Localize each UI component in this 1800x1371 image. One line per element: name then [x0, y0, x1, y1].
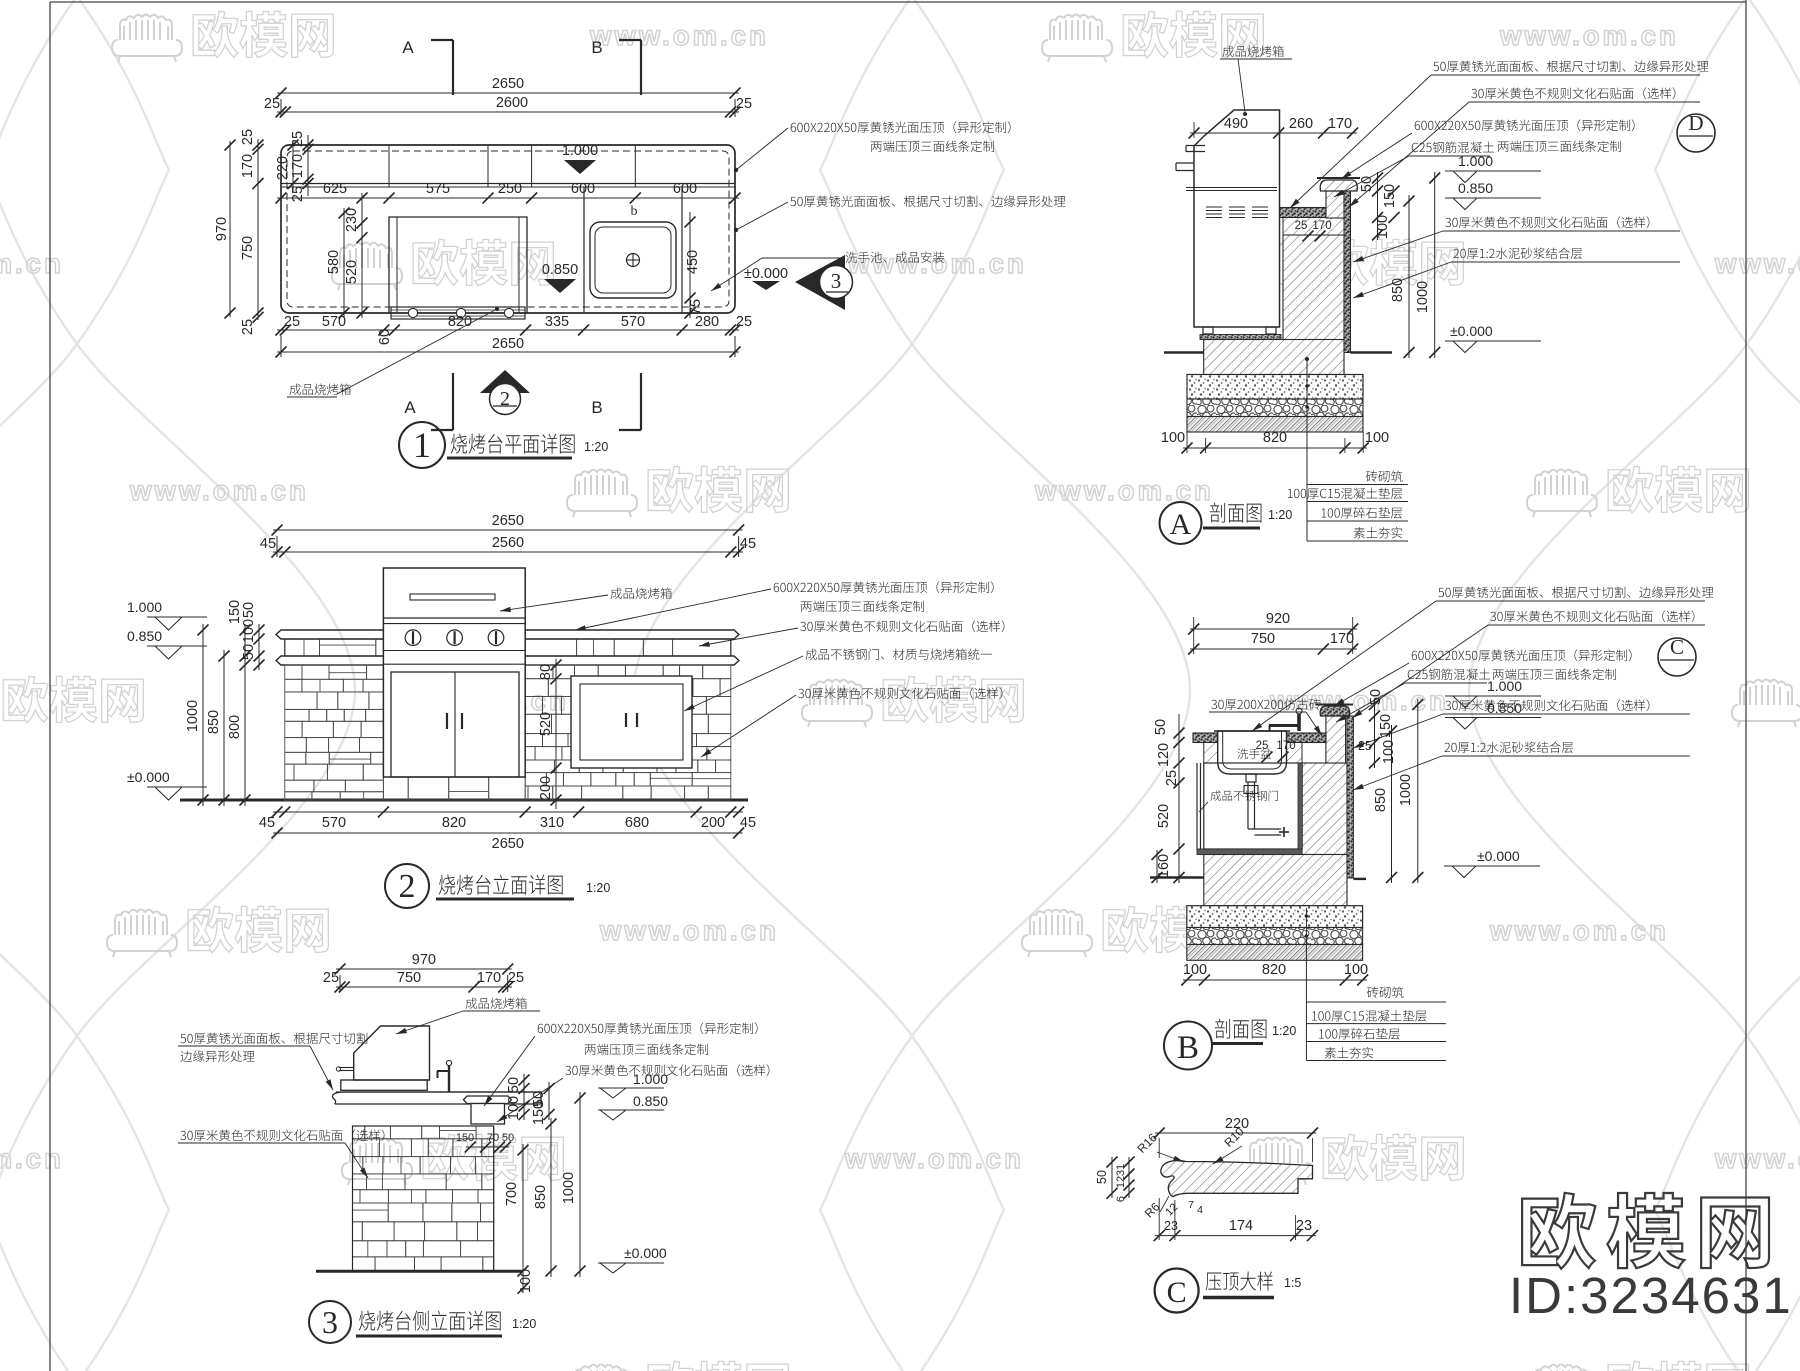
svg-text:25: 25: [1256, 740, 1269, 752]
svg-text:2650: 2650: [492, 513, 524, 529]
svg-text:850: 850: [206, 710, 222, 734]
svg-text:B: B: [1177, 1030, 1199, 1066]
svg-text:850: 850: [1373, 788, 1389, 812]
svg-text:www.om.cn: www.om.cn: [129, 475, 309, 506]
svg-text:490: 490: [1224, 116, 1248, 132]
svg-text:23: 23: [1164, 1219, 1178, 1233]
svg-text:170: 170: [1328, 116, 1352, 132]
svg-text:www.om.cn: www.om.cn: [0, 248, 64, 279]
elevation 烧烤台立面详图: [180, 799, 748, 802]
svg-text:2560: 2560: [492, 535, 524, 551]
svg-text:580: 580: [326, 250, 342, 274]
svg-text:570: 570: [322, 815, 346, 831]
svg-text:1.000: 1.000: [127, 599, 162, 615]
svg-text:800: 800: [227, 715, 243, 739]
svg-text:335: 335: [545, 314, 569, 330]
svg-text:0.850: 0.850: [1487, 700, 1522, 716]
svg-text:25: 25: [323, 970, 339, 986]
svg-text:260: 260: [1289, 116, 1313, 132]
svg-text:50: 50: [502, 1132, 514, 1144]
svg-text:2: 2: [399, 868, 416, 905]
svg-text:80: 80: [538, 664, 554, 680]
svg-text:50: 50: [241, 602, 257, 618]
svg-text:1:20: 1:20: [584, 440, 608, 454]
svg-text:ID:3234631: ID:3234631: [1509, 1267, 1793, 1324]
svg-text:±0.000: ±0.000: [624, 1245, 667, 1261]
svg-text:150: 150: [456, 1132, 474, 1144]
svg-text:680: 680: [625, 815, 649, 831]
svg-text:100: 100: [506, 1096, 522, 1120]
svg-text:www.om.cn: www.om.cn: [1714, 1143, 1800, 1174]
svg-text:820: 820: [1262, 962, 1286, 978]
svg-text:70: 70: [487, 1132, 499, 1144]
svg-text:50: 50: [1153, 719, 1169, 735]
svg-text:45: 45: [260, 536, 276, 552]
svg-text:0.850: 0.850: [1458, 180, 1493, 196]
svg-text:170: 170: [477, 970, 501, 986]
svg-text:230: 230: [344, 208, 360, 232]
svg-text:625: 625: [323, 181, 347, 197]
svg-text:575: 575: [426, 181, 450, 197]
svg-text:25: 25: [1358, 739, 1372, 753]
svg-text:50: 50: [241, 644, 257, 660]
svg-text:100: 100: [1183, 962, 1207, 978]
svg-text:970: 970: [214, 217, 230, 241]
svg-text:A: A: [1170, 508, 1192, 541]
svg-text:200: 200: [538, 776, 554, 800]
svg-text:B: B: [591, 38, 602, 57]
svg-text:174: 174: [1229, 1218, 1253, 1234]
svg-text:850: 850: [1390, 278, 1406, 302]
svg-text:1.000: 1.000: [562, 143, 598, 159]
svg-text:1: 1: [413, 425, 431, 465]
svg-text:160: 160: [1156, 854, 1172, 878]
svg-text:www.om.cn: www.om.cn: [844, 1143, 1024, 1174]
svg-text:750: 750: [240, 236, 256, 260]
svg-text:25: 25: [508, 970, 524, 986]
side elevation 烧烤台侧立面详图: [354, 1026, 430, 1080]
svg-text:700: 700: [504, 1182, 520, 1206]
svg-text:250: 250: [498, 181, 522, 197]
svg-text:50: 50: [1368, 689, 1384, 705]
svg-text:3: 3: [831, 269, 842, 293]
svg-text:820: 820: [1263, 430, 1287, 446]
svg-text:www.om.cn: www.om.cn: [1489, 915, 1669, 946]
svg-text:100: 100: [1375, 215, 1391, 239]
svg-text:1000: 1000: [1398, 774, 1414, 806]
svg-text:850: 850: [533, 1185, 549, 1209]
svg-text:100: 100: [1381, 740, 1397, 764]
svg-text:1:20: 1:20: [512, 1317, 536, 1331]
detail C 压顶大样: [1161, 1161, 1313, 1197]
svg-text:450: 450: [685, 250, 701, 274]
svg-text:100: 100: [241, 619, 257, 643]
svg-text:100: 100: [1344, 962, 1368, 978]
svg-text:0.850: 0.850: [127, 628, 162, 644]
svg-text:A: A: [404, 398, 416, 417]
svg-text:570: 570: [621, 314, 645, 330]
svg-text:1.000: 1.000: [633, 1071, 668, 1087]
svg-text:600: 600: [673, 181, 697, 197]
svg-text:±0.000: ±0.000: [1477, 848, 1520, 864]
svg-text:1.000: 1.000: [1487, 678, 1522, 694]
svg-text:23: 23: [1296, 1218, 1312, 1234]
svg-text:www.om.cn: www.om.cn: [0, 1143, 64, 1174]
svg-text:600: 600: [571, 181, 595, 197]
svg-text:0.850: 0.850: [542, 262, 578, 278]
svg-text:1000: 1000: [1415, 281, 1431, 313]
svg-text:1000: 1000: [185, 700, 201, 732]
svg-text:170: 170: [290, 154, 306, 178]
svg-text:C: C: [1167, 1276, 1187, 1309]
svg-text:31: 31: [1115, 1164, 1127, 1176]
svg-text:25: 25: [736, 314, 752, 330]
svg-text:970: 970: [412, 952, 436, 968]
svg-text:45: 45: [740, 536, 756, 552]
svg-text:25: 25: [264, 96, 280, 112]
svg-text:1:20: 1:20: [1268, 508, 1292, 522]
svg-text:170: 170: [1330, 631, 1354, 647]
svg-text:2650: 2650: [492, 336, 524, 352]
svg-text:www.om.cn: www.om.cn: [847, 248, 1027, 279]
svg-text:25: 25: [290, 131, 306, 147]
section B 剖面图: [1302, 763, 1347, 855]
svg-text:1:20: 1:20: [1272, 1024, 1296, 1038]
svg-text:12: 12: [1115, 1176, 1127, 1188]
svg-text:6: 6: [1115, 1196, 1127, 1202]
svg-text:www.om.cn: www.om.cn: [1499, 20, 1679, 51]
svg-text:0.850: 0.850: [633, 1093, 668, 1109]
svg-text:200: 200: [701, 815, 725, 831]
svg-text:25: 25: [284, 314, 300, 330]
svg-text:170: 170: [1276, 740, 1295, 752]
svg-text:25: 25: [1295, 220, 1308, 232]
svg-text:1:5: 1:5: [1284, 1276, 1301, 1290]
svg-text:45: 45: [259, 815, 275, 831]
svg-text:b: b: [631, 204, 638, 219]
svg-text:50: 50: [506, 1077, 522, 1093]
svg-text:570: 570: [322, 314, 346, 330]
svg-text:120: 120: [1156, 743, 1172, 767]
svg-text:150: 150: [531, 1101, 547, 1125]
svg-text:2: 2: [500, 388, 510, 410]
svg-text:310: 310: [540, 815, 564, 831]
svg-text:±0.000: ±0.000: [127, 769, 170, 785]
svg-text:1000: 1000: [561, 1172, 577, 1204]
svg-text:25: 25: [736, 96, 752, 112]
svg-text:±0.000: ±0.000: [1450, 323, 1493, 339]
svg-text:750: 750: [397, 970, 421, 986]
svg-text:7: 7: [1188, 1199, 1194, 1211]
svg-text:3: 3: [322, 1304, 338, 1340]
svg-text:±0.000: ±0.000: [744, 266, 788, 282]
svg-text:50: 50: [1359, 176, 1375, 192]
svg-text:2600: 2600: [496, 95, 528, 111]
svg-text:4: 4: [1197, 1204, 1203, 1216]
svg-text:280: 280: [695, 314, 719, 330]
svg-text:820: 820: [448, 314, 472, 330]
svg-text:75: 75: [688, 299, 704, 315]
svg-text:60: 60: [377, 329, 393, 345]
svg-text:1:20: 1:20: [586, 881, 610, 895]
svg-text:D: D: [1688, 111, 1703, 135]
svg-text:1.000: 1.000: [1458, 153, 1493, 169]
svg-text:820: 820: [442, 815, 466, 831]
section A 剖面图: [1283, 235, 1344, 374]
svg-text:100: 100: [1365, 430, 1389, 446]
logo 欧模网 ID: [1522, 1193, 1769, 1269]
svg-text:25: 25: [240, 129, 256, 145]
svg-text:25: 25: [1164, 770, 1180, 786]
svg-text:520: 520: [344, 260, 360, 284]
svg-text:2650: 2650: [492, 76, 524, 92]
svg-text:170: 170: [1312, 220, 1331, 232]
svg-text:www.om.cn: www.om.cn: [589, 20, 769, 51]
svg-text:520: 520: [538, 712, 554, 736]
plan view 烧烤台平面详图: [281, 145, 735, 313]
svg-text:C: C: [1670, 635, 1684, 659]
svg-text:25: 25: [290, 186, 306, 202]
svg-text:25: 25: [240, 319, 256, 335]
svg-text:www.om.cn: www.om.cn: [1714, 248, 1800, 279]
svg-text:100: 100: [1161, 430, 1185, 446]
svg-text:520: 520: [1156, 804, 1172, 828]
svg-text:www.om.cn: www.om.cn: [1034, 475, 1214, 506]
svg-text:2650: 2650: [492, 836, 524, 852]
svg-text:A: A: [402, 38, 414, 57]
svg-text:750: 750: [1251, 631, 1275, 647]
svg-text:www.om.cn: www.om.cn: [599, 915, 779, 946]
svg-text:B: B: [591, 398, 602, 417]
svg-text:220: 220: [275, 156, 291, 180]
svg-text:170: 170: [240, 154, 256, 178]
svg-text:50: 50: [1095, 1170, 1109, 1184]
svg-text:920: 920: [1266, 611, 1290, 627]
svg-text:100: 100: [518, 1269, 534, 1293]
